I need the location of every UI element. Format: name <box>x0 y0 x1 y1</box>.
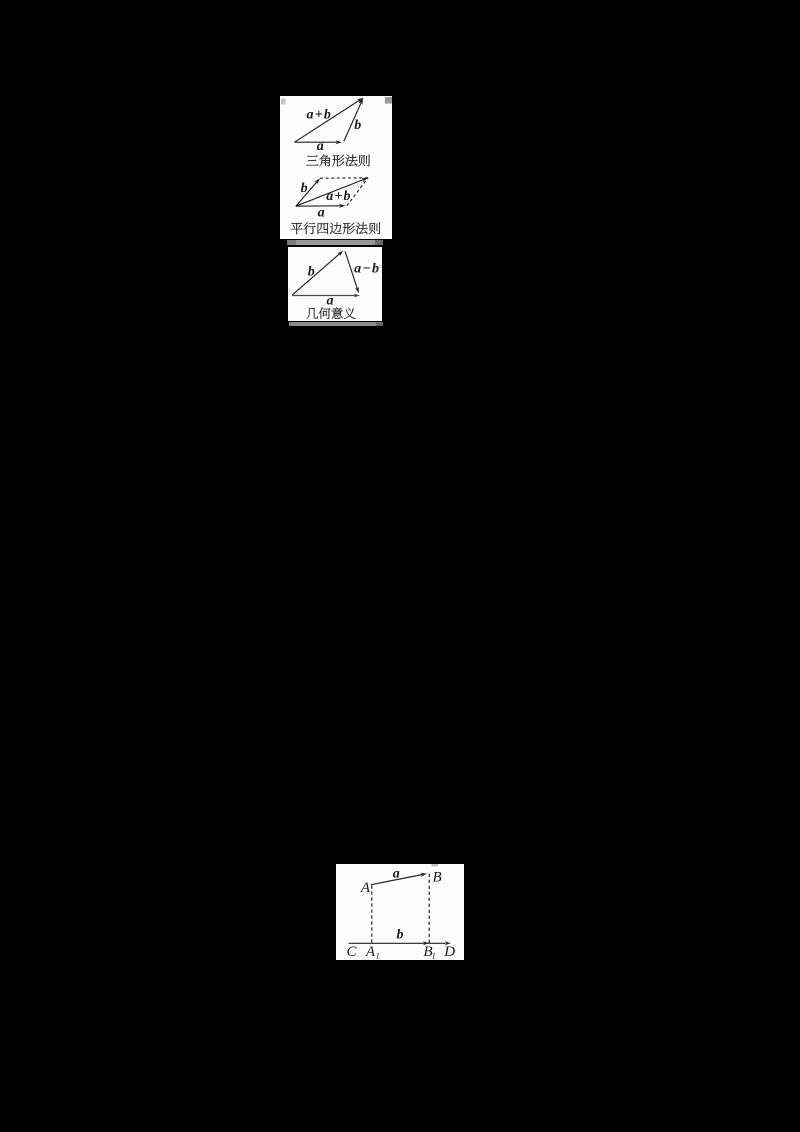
label B1 <box>423 944 432 960</box>
svg-text:B: B <box>433 870 442 886</box>
baseline C to D <box>349 942 446 944</box>
white panel box2 <box>288 247 382 322</box>
scan artifact gray band below box2 <box>289 322 377 327</box>
dashed right edge of parallelogram <box>347 178 368 206</box>
subscript 1 of B1 <box>431 951 435 961</box>
vector a (parallelogram rule) <box>296 204 346 208</box>
label A1 <box>365 944 376 960</box>
svg-text:a: a <box>327 293 334 308</box>
dashed top edge of parallelogram <box>320 177 368 179</box>
label b (parallelogram rule) <box>301 181 308 196</box>
caption 几何意义 <box>306 307 355 319</box>
scan artifact square top-left <box>281 99 286 105</box>
arrowhead at D <box>445 941 451 945</box>
vector b (geometric meaning) <box>292 250 343 295</box>
vector a (geometric meaning) <box>292 293 360 297</box>
label a+b (parallelogram rule) <box>326 189 350 204</box>
svg-text:A: A <box>360 880 371 896</box>
white panel box1 <box>280 96 392 239</box>
svg-text:D: D <box>443 944 455 960</box>
vector a-b (geometric meaning) <box>345 251 359 293</box>
label a (geometric meaning) <box>327 293 334 308</box>
vector a+b (triangle rule) <box>295 98 364 143</box>
label b (geometric meaning) <box>308 264 315 279</box>
label b (box3) <box>397 927 404 942</box>
label b (triangle rule) <box>354 118 361 133</box>
svg-text:a + b: a + b <box>326 189 350 204</box>
svg-text:b: b <box>354 118 361 133</box>
scan artifact gray band below box1 (middle) <box>296 240 375 245</box>
vector a+b (parallelogram rule) <box>296 178 368 206</box>
white panel box3 <box>336 864 464 960</box>
label B <box>433 870 442 886</box>
label a+b (triangle rule) <box>307 108 331 123</box>
label a-b (geometric meaning) <box>354 261 379 276</box>
label a (parallelogram rule) <box>318 206 325 221</box>
scan artifact gray band below box1 (right) <box>375 240 383 245</box>
arrowhead of vector b at B1 <box>423 941 429 945</box>
scan artifact dash top near B <box>432 864 439 866</box>
label D <box>443 944 455 960</box>
svg-text:1: 1 <box>375 951 379 960</box>
caption 平行四边形法则 <box>291 222 381 234</box>
vector b (parallelogram rule) <box>296 178 320 206</box>
label a (box3) <box>393 866 400 881</box>
vector b (triangle rule) <box>344 98 363 141</box>
caption 三角形法则 <box>306 155 370 167</box>
label a (triangle rule) <box>317 139 324 154</box>
svg-text:a − b: a − b <box>354 261 379 276</box>
dashed line A to A1 <box>371 885 373 943</box>
dashed line B to B1 <box>428 874 430 944</box>
vector a from A to B <box>371 873 427 885</box>
svg-text:a: a <box>393 866 400 881</box>
scan artifact square top-right <box>385 97 392 104</box>
svg-text:C: C <box>346 944 357 960</box>
scan artifact dark square below box2 right <box>376 322 383 327</box>
svg-text:a + b: a + b <box>307 108 331 123</box>
svg-text:1: 1 <box>431 951 435 960</box>
svg-text:b: b <box>397 927 404 942</box>
vector a (triangle rule) <box>295 140 342 144</box>
svg-text:b: b <box>301 181 308 196</box>
svg-text:A: A <box>365 944 376 960</box>
svg-text:a: a <box>318 206 325 221</box>
svg-text:b: b <box>308 264 315 279</box>
label C <box>346 944 357 960</box>
svg-text:a: a <box>317 139 324 154</box>
subscript 1 of A1 <box>375 951 379 961</box>
label A <box>360 880 371 896</box>
scan artifact gray band below box1 (left) <box>287 240 296 245</box>
